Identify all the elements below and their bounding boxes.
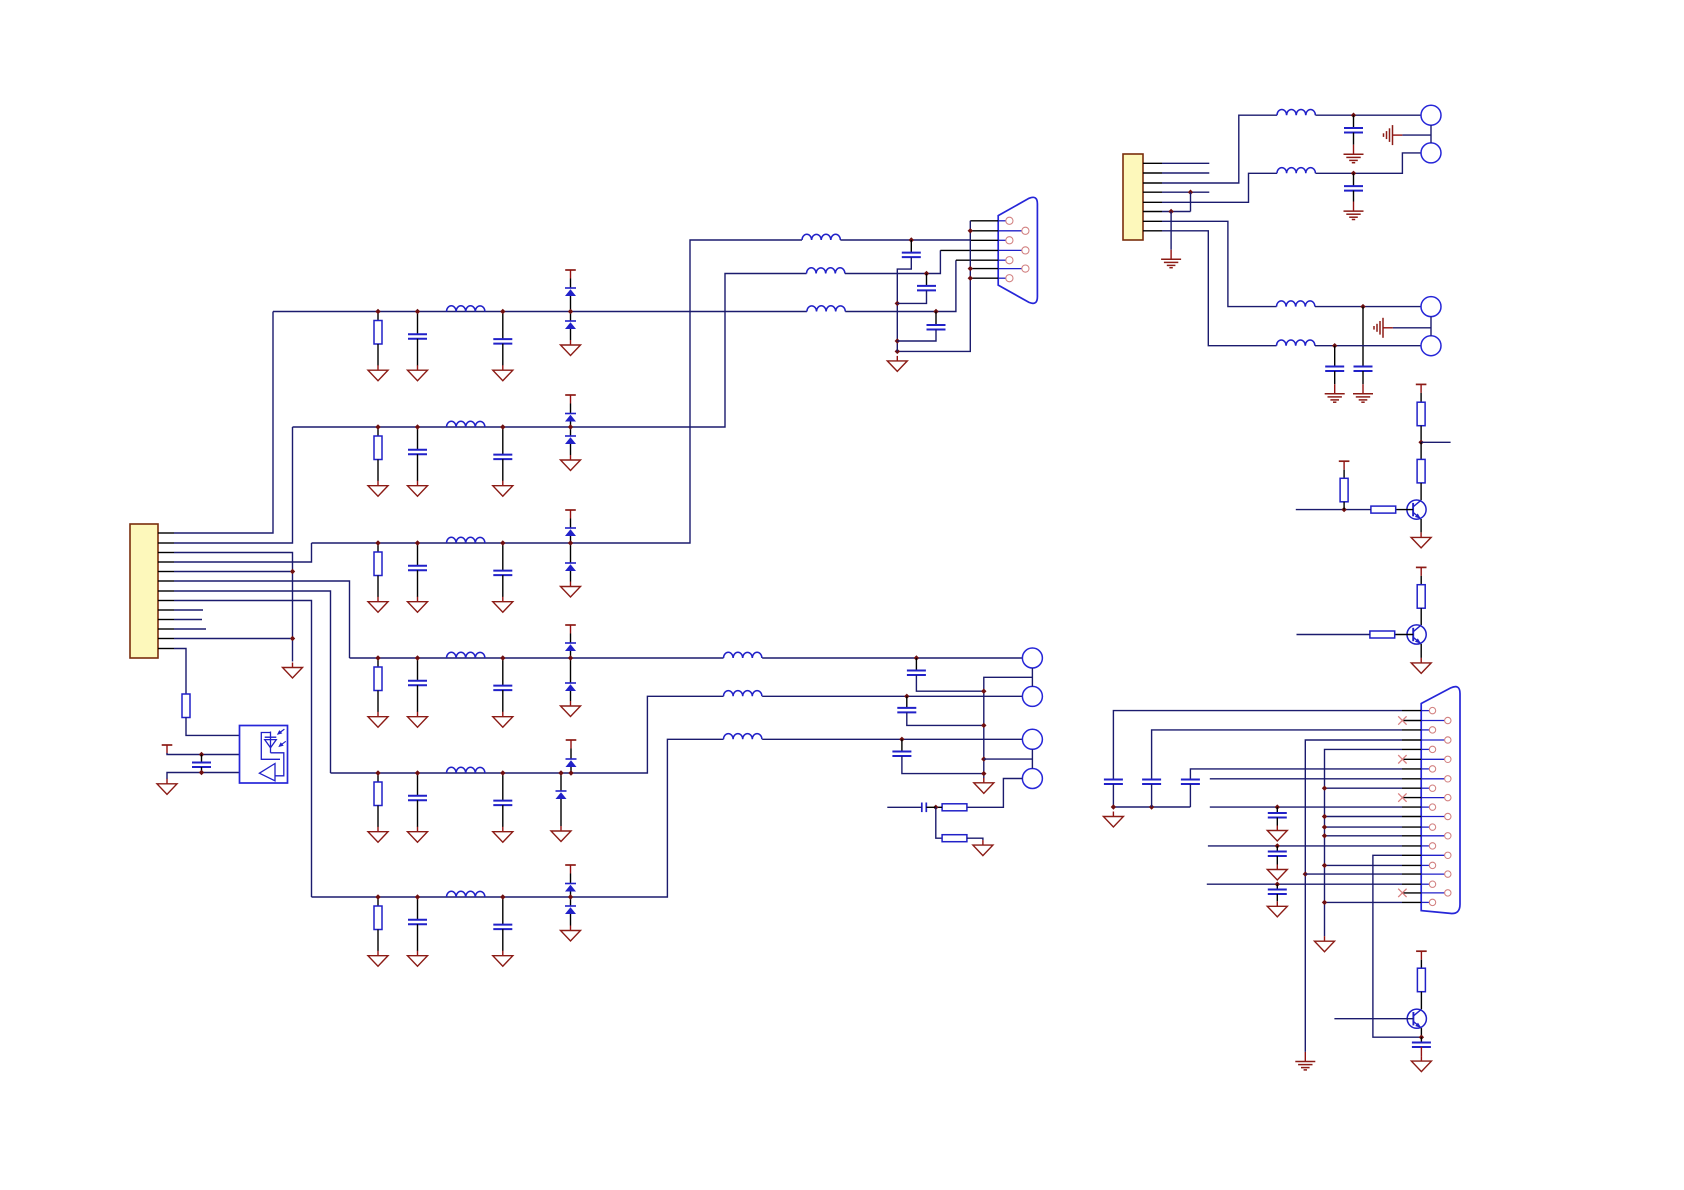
lead row6 lower ESD diode bbox=[570, 897, 572, 906]
wire J1 pin8 to row6 bbox=[174, 601, 312, 898]
J2 pin4 wire bbox=[940, 249, 998, 251]
lead C16 top bbox=[935, 312, 937, 326]
wire VCC to IR receiver pin2 bbox=[167, 753, 240, 755]
lead row2 cap2 bbox=[502, 427, 504, 455]
lead C23 bbox=[1362, 307, 1364, 367]
resistor R21 (Q2 base series) bbox=[1370, 631, 1395, 638]
lead C14 top bbox=[910, 240, 912, 253]
junction J2 pin2/bus bbox=[968, 228, 973, 233]
J7 pin 6 stub bbox=[1143, 211, 1162, 213]
wire J2 ground bus bbox=[897, 221, 970, 352]
ground (row6 cap1) bbox=[408, 951, 428, 967]
junction bus A/pin R9 bbox=[1303, 871, 1308, 876]
J12 pin stub bbox=[1402, 748, 1421, 750]
wire Q3 base net bbox=[1334, 1018, 1413, 1020]
capacitor Crow5a (row5 first shunt cap) bbox=[408, 796, 427, 801]
ground (row5 resistor) bbox=[368, 827, 388, 843]
wire J1 pin7 to row5 bbox=[174, 591, 331, 773]
junction bus B/pin L9 bbox=[1322, 863, 1327, 868]
junction row2/cap2 bbox=[500, 424, 505, 429]
lead row4 cap2 bbox=[502, 658, 504, 686]
wire row3 after inductor L9 to DB9 pin3 bbox=[840, 239, 970, 241]
J12 pin L8 bbox=[1429, 843, 1435, 849]
J12 pin stub bbox=[1402, 710, 1421, 712]
J12 pin L5 lead bbox=[1421, 787, 1429, 789]
chassis ground (J10/J11) bbox=[1374, 318, 1393, 338]
lead C30 top bbox=[1276, 884, 1278, 889]
J2 pin 7 bbox=[1006, 275, 1013, 282]
lead row1 cap2 to ground bbox=[502, 344, 504, 366]
lead row6 upper ESD diode bbox=[570, 874, 572, 884]
J12 pin R8 bbox=[1445, 852, 1451, 858]
capacitor Crow4a (row4 first shunt cap) bbox=[408, 681, 427, 686]
transistor Q1 bbox=[1407, 500, 1426, 519]
junction C18 return bbox=[981, 723, 986, 728]
wire IR receiver pin3 to ground bbox=[167, 773, 240, 780]
J12 pin L3 bbox=[1429, 746, 1435, 752]
no-connect X (J12 R1) bbox=[1398, 716, 1406, 724]
resistor R17 (T1 collector) bbox=[1417, 459, 1425, 483]
wire J12 L8 stub bbox=[1208, 845, 1402, 847]
junction row6/diodes bbox=[568, 894, 573, 899]
capacitor C29 bbox=[1268, 852, 1287, 857]
capacitor C21 bbox=[1344, 128, 1363, 133]
junction row4/C17 bbox=[914, 655, 919, 660]
jack J10 bbox=[1421, 297, 1441, 317]
diode D2b (row2 ESD to ground) bbox=[565, 436, 576, 444]
lead row6 cap1 bbox=[417, 897, 419, 920]
lead row5 upper ESD diode bbox=[570, 749, 572, 760]
wire J5 shell tap bbox=[984, 758, 1033, 760]
lead row3 lower ESD diode bbox=[570, 543, 572, 563]
diode D5b (row5 ESD to ground) bbox=[556, 791, 567, 799]
J12 pin L7 bbox=[1429, 824, 1435, 830]
junction C17 return bbox=[981, 689, 986, 694]
wire J1 pin2 to row2 bbox=[174, 427, 293, 543]
wire J1 pin4 to row3 bbox=[174, 543, 312, 562]
transistor Q3 bbox=[1407, 1009, 1426, 1028]
lead row2 resistor to ground bbox=[377, 460, 379, 482]
lead row3 cap1 to ground bbox=[417, 570, 419, 597]
junction row3/cap1 bbox=[415, 540, 420, 545]
ground (row2 resistor) bbox=[368, 481, 388, 497]
VCC stub (row6 ESD) bbox=[565, 865, 576, 874]
lead R17 top bbox=[1420, 442, 1422, 459]
junction C19 return bbox=[981, 771, 986, 776]
lead R20 to Q2 bbox=[1420, 608, 1422, 625]
lead row5 cap1 bbox=[417, 773, 419, 796]
capacitor Crow1b (row1 second shunt cap) bbox=[493, 339, 512, 344]
lead row5 cap2 to ground bbox=[502, 805, 504, 827]
ground (IR receiver) bbox=[157, 779, 177, 795]
wire L15 to jack J10 bbox=[1315, 306, 1421, 308]
lead row6 cap2 to ground bbox=[502, 929, 504, 951]
lead C28 top bbox=[1276, 807, 1278, 813]
VCC stub (R18) bbox=[1339, 461, 1350, 470]
lead row2 lower ESD diode bbox=[570, 427, 572, 436]
capacitor Crow1a (row1 first shunt cap) bbox=[408, 334, 427, 339]
capacitor C17 (row4 line) bbox=[907, 671, 926, 676]
wire C19 to return bus bbox=[902, 756, 984, 774]
J12 pin L6 bbox=[1429, 804, 1435, 810]
VCC stub (IR receiver) bbox=[162, 745, 173, 754]
junction C15/rail bbox=[895, 301, 900, 306]
J2 pin 2 lead bbox=[998, 230, 1022, 232]
U1 internal photodiode bbox=[265, 732, 277, 753]
junction row3/diodes bbox=[568, 540, 573, 545]
inductor L4 (row4 series) bbox=[447, 652, 485, 658]
J12 pin R2 bbox=[1445, 737, 1451, 743]
ground (row4 ESD) bbox=[561, 701, 581, 717]
lead row3 upper diode to wire bbox=[570, 536, 572, 543]
resistor R1 (row1 shunt) bbox=[374, 321, 382, 345]
J12 pin R3 lead bbox=[1421, 758, 1444, 760]
lead C13 top bbox=[201, 755, 203, 763]
lead C31 bottom bbox=[1420, 1047, 1422, 1056]
lead row4 cap1 bbox=[417, 658, 419, 681]
lead Q2 emitter bbox=[1420, 644, 1422, 658]
wire J1 pin5 bbox=[174, 571, 290, 573]
J2 pin 3 lead bbox=[998, 239, 1006, 241]
J12 pin stub bbox=[1402, 768, 1421, 770]
lead C23 bottom bbox=[1362, 371, 1364, 384]
J2 pin 5 bbox=[1006, 257, 1013, 264]
ground (row3 cap2) bbox=[493, 597, 513, 613]
junction C16/rail bbox=[895, 338, 900, 343]
lead C18 top bbox=[906, 696, 908, 708]
VCC stub (R20) bbox=[1416, 567, 1427, 576]
inductor L6 (row6 series) bbox=[447, 891, 485, 897]
J1 pin 6 stub bbox=[158, 580, 174, 582]
J1 pin 1 stub bbox=[158, 532, 174, 534]
ground (row6 cap2) bbox=[493, 951, 513, 967]
wire J7 pin4 bbox=[1162, 191, 1209, 193]
diode D4b (row4 ESD to ground) bbox=[565, 683, 576, 691]
lead row1 resistor bbox=[377, 312, 379, 321]
no-connect X (J12 R10) bbox=[1398, 889, 1406, 897]
wire J7 pin8 to L16 bbox=[1162, 231, 1277, 346]
wire row5 after inductor L11 to jack J4 bbox=[762, 695, 1022, 697]
wire J1 pin12 bbox=[174, 638, 290, 640]
lead row5 cap2 bbox=[502, 773, 504, 801]
J12 pin stub bbox=[1402, 854, 1421, 856]
J12 pin R4 lead bbox=[1421, 778, 1444, 780]
capacitor C28 bbox=[1268, 813, 1287, 818]
J12 pin stub bbox=[1402, 873, 1421, 875]
lead row4 upper ESD diode bbox=[570, 634, 572, 644]
ground (Q1 emitter) bbox=[1411, 532, 1431, 548]
lead row6 upper diode to wire bbox=[570, 892, 572, 898]
J2 pin 7 lead bbox=[998, 277, 1006, 279]
wire row2 horizontal bbox=[293, 274, 807, 428]
wire J7 pin6 to earth bbox=[1170, 212, 1172, 250]
diode D1a (row1 ESD to VCC) bbox=[565, 288, 576, 296]
J12 pin L2 bbox=[1429, 727, 1435, 733]
J12 pin R5 lead bbox=[1421, 797, 1444, 799]
wire J1 pin6 to row4 bbox=[174, 581, 350, 658]
J2 pin 1 bbox=[1006, 217, 1013, 224]
jack J3 (row4 output) bbox=[1022, 648, 1042, 668]
junction J7 pin6/earth bbox=[1168, 209, 1173, 214]
capacitor C20 (series) bbox=[922, 803, 927, 813]
lead C22 top bbox=[1353, 173, 1355, 186]
J12 pin R5 bbox=[1445, 794, 1451, 800]
ground (row5 ESD) bbox=[551, 826, 571, 842]
junction J2 pin7/bus bbox=[968, 276, 973, 281]
junction L13/C21 bbox=[1351, 113, 1356, 118]
VCC stub (R22) bbox=[1416, 951, 1427, 960]
junction L15/C23 bbox=[1360, 304, 1365, 309]
J1 pin 8 stub bbox=[158, 600, 174, 602]
J2 pin 1 lead bbox=[998, 220, 1006, 222]
J1 pin 5 stub bbox=[158, 571, 174, 573]
wire J12 L4 to C27 bbox=[1190, 769, 1402, 780]
J12 pin R9 bbox=[1445, 871, 1451, 877]
junction row5/R5 bbox=[375, 770, 380, 775]
J12 pin L1 lead bbox=[1421, 710, 1429, 712]
diode D6a (row6 ESD to VCC) bbox=[565, 884, 576, 892]
wire Q2 base lead bbox=[1395, 634, 1414, 636]
inductor L9 (row3 second stage) bbox=[802, 234, 840, 240]
junction row1/C16 bbox=[933, 309, 938, 314]
inductor L16 bbox=[1277, 340, 1315, 346]
ground (row3 cap1) bbox=[408, 597, 428, 613]
lead C21 bottom bbox=[1353, 133, 1355, 145]
capacitor Crow3a (row3 first shunt cap) bbox=[408, 566, 427, 571]
J2 pin 5 lead bbox=[998, 259, 1006, 261]
lead C24 bbox=[1334, 346, 1336, 367]
wire J12 L6 stub bbox=[1210, 806, 1402, 808]
diode D1b (row1 ESD to ground) bbox=[565, 321, 576, 329]
connector J12 (DB25 bottom right) body bbox=[1421, 687, 1460, 914]
wire J3 shell to J4 shell bbox=[1031, 668, 1033, 686]
capacitor C16 (row1 line) bbox=[927, 325, 946, 330]
inductor L12 (row6 second stage) bbox=[724, 734, 762, 740]
ground (Q2 emitter) bbox=[1411, 658, 1431, 674]
resistor R20 (Q2 collector) bbox=[1417, 585, 1425, 609]
diode D4a (row4 ESD to VCC) bbox=[565, 643, 576, 651]
lead R16 top bbox=[1420, 393, 1422, 402]
J12 pin L5 bbox=[1429, 785, 1435, 791]
ground (row5 cap1) bbox=[408, 827, 428, 843]
resistor R19 (Q1 base series) bbox=[1371, 506, 1396, 513]
capacitor C27 (series) bbox=[1181, 780, 1200, 785]
lead C20 right bbox=[926, 806, 936, 808]
wire J10 shell to J11 shell bbox=[1430, 317, 1432, 336]
wire J8 shell to J9 shell bbox=[1430, 125, 1432, 143]
lead R14 left bbox=[936, 806, 942, 808]
inductor L8 (row2 second stage) bbox=[807, 268, 845, 274]
lead row4 resistor bbox=[377, 658, 379, 667]
junction J2 pin6/bus bbox=[968, 266, 973, 271]
ground (cap node) bbox=[1103, 812, 1123, 828]
junction row4/R4 bbox=[375, 655, 380, 660]
junction row5/cap2 bbox=[500, 770, 505, 775]
J7 pin 2 stub bbox=[1143, 172, 1162, 174]
ground (row1 cap2) bbox=[493, 365, 513, 381]
junction row2/diodes bbox=[568, 424, 573, 429]
diode D6b (row6 ESD to ground) bbox=[565, 906, 576, 914]
J2 pin 3 bbox=[1006, 237, 1013, 244]
J12 pin stub bbox=[1402, 883, 1421, 885]
lead row5 resistor bbox=[377, 773, 379, 782]
lead row1 cap2 bbox=[502, 312, 504, 340]
wire R15 branch bbox=[936, 807, 942, 838]
lead row2 lower diode to ground bbox=[570, 444, 572, 455]
J2 pin 6 bbox=[1022, 265, 1029, 272]
ground (C30) bbox=[1267, 901, 1287, 917]
resistor R14 (series) bbox=[942, 804, 967, 811]
ground (C29) bbox=[1267, 865, 1287, 881]
J12 pin L11 lead bbox=[1421, 901, 1429, 903]
connector J2 (DB9 top) body bbox=[998, 197, 1037, 303]
lead row3 cap2 to ground bbox=[502, 575, 504, 597]
VCC stub (row4 ESD) bbox=[565, 625, 576, 634]
resistor R22 (Q3 collector) bbox=[1417, 968, 1425, 992]
inductor L10 (row4 second stage) bbox=[724, 652, 762, 658]
J1 pin 11 stub bbox=[158, 628, 174, 630]
J2 pin 6 lead bbox=[998, 268, 1022, 270]
wire J1 pin13 to R13 bbox=[174, 649, 186, 695]
jack J6 bbox=[1022, 769, 1042, 789]
J12 pin R6 lead bbox=[1421, 816, 1444, 818]
wire R13 to IR receiver pin1 bbox=[186, 718, 240, 736]
ground (bus B) bbox=[1315, 936, 1335, 952]
junction row1/diodes bbox=[568, 309, 573, 314]
VCC stub (row5 ESD) bbox=[566, 740, 577, 749]
wire J1 pin1 to row1 bbox=[174, 312, 273, 534]
junction J7 pin4/pin6 tie bbox=[1188, 190, 1193, 195]
J12 pin R7 bbox=[1445, 833, 1451, 839]
junction row1/R1 bbox=[375, 309, 380, 314]
wire J12 L2 to C26 bbox=[1152, 730, 1402, 780]
J1 pin 3 stub bbox=[158, 552, 174, 554]
lead C15 top bbox=[926, 274, 928, 286]
J2 pin6 wire bbox=[970, 268, 998, 270]
lead C13 bottom bbox=[201, 767, 203, 773]
wire J12 R8 to Q3 emitter bbox=[1373, 855, 1422, 1037]
J12 pin stub bbox=[1402, 758, 1421, 760]
ground (row3 ESD) bbox=[561, 582, 581, 598]
wire J12 R2 ground bus A bbox=[1305, 740, 1402, 1052]
junction bus B/pin L7 bbox=[1322, 824, 1327, 829]
capacitor C25 (series) bbox=[1104, 780, 1123, 785]
wire J12 L10 stub bbox=[1207, 883, 1402, 885]
wire row3 horizontal bbox=[312, 240, 803, 543]
U1 internal amplifier bbox=[259, 764, 275, 781]
lead row1 lower diode to ground bbox=[570, 329, 572, 340]
resistor R15 (to ground) bbox=[942, 835, 967, 842]
J12 pin L8 lead bbox=[1421, 845, 1429, 847]
junction row3/R3 bbox=[375, 540, 380, 545]
wire J7 pin1 stub bbox=[1162, 162, 1209, 164]
J12 pin stub bbox=[1402, 787, 1421, 789]
J12 pin stub bbox=[1402, 739, 1421, 741]
ground (row2 cap1) bbox=[408, 481, 428, 497]
wire J12 R6 bbox=[1325, 816, 1403, 818]
wire row1 after inductor L7 to DB9 pin5 riser bbox=[845, 260, 956, 311]
J12 pin R6 bbox=[1445, 813, 1451, 819]
J12 pin L9 lead bbox=[1421, 864, 1429, 866]
junction caps/ground bus bbox=[895, 349, 900, 354]
J2 pin7 wire bbox=[970, 277, 998, 279]
ground (R15) bbox=[973, 840, 993, 856]
connector J7 (top right yellow header) bbox=[1123, 154, 1143, 240]
wire J3/J4 shell tap to return bus bbox=[984, 677, 1033, 778]
lead row6 resistor bbox=[377, 897, 379, 906]
J12 pin stub bbox=[1402, 729, 1421, 731]
J12 pin L10 bbox=[1429, 881, 1435, 887]
earth ground (C22) bbox=[1344, 202, 1364, 220]
junction C26/node bbox=[1149, 804, 1154, 809]
resistor R4 (row4 shunt) bbox=[374, 667, 382, 691]
ground (row1 resistor) bbox=[368, 365, 388, 381]
junction row6/C19 bbox=[899, 737, 904, 742]
lead C21 top bbox=[1353, 115, 1355, 128]
lead row4 cap2 to ground bbox=[502, 690, 504, 712]
wire C18 to return bus bbox=[907, 712, 984, 725]
wire J12 L11 bbox=[1325, 901, 1403, 903]
lead C19 top bbox=[901, 739, 903, 751]
J12 pin stub bbox=[1402, 892, 1421, 894]
transistor Q2 bbox=[1407, 625, 1426, 644]
jack J4 (row5 output) bbox=[1022, 686, 1042, 706]
J12 pin L6 lead bbox=[1421, 806, 1429, 808]
wire row5 horizontal bbox=[331, 696, 724, 773]
junction row1/cap1 bbox=[415, 309, 420, 314]
J12 pin R10 lead bbox=[1421, 892, 1444, 894]
J7 pin 3 stub bbox=[1143, 182, 1162, 184]
lead row1 lower ESD diode bbox=[570, 312, 572, 322]
J12 pin stub bbox=[1402, 797, 1421, 799]
junction row5/upper diode bbox=[568, 770, 573, 775]
earth ground (bus A) bbox=[1295, 1052, 1315, 1070]
junction row5/lower diode bbox=[558, 770, 563, 775]
ground (jack return bus) bbox=[974, 778, 994, 794]
resistor R2 (row2 shunt) bbox=[374, 436, 382, 460]
VCC stub (R16) bbox=[1416, 384, 1427, 393]
ground (row6 resistor) bbox=[368, 951, 388, 967]
capacitor C18 (row5 line) bbox=[897, 708, 916, 713]
capacitor Crow6a (row6 first shunt cap) bbox=[408, 920, 427, 925]
J12 pin stub bbox=[1402, 720, 1421, 722]
J1 pin 4 stub bbox=[158, 561, 174, 563]
wire C15 to rail bbox=[897, 290, 926, 303]
inductor L15 bbox=[1277, 301, 1315, 307]
wire J12 L3 ground bus B bbox=[1325, 749, 1403, 936]
lead R17 to T1 collector bbox=[1420, 483, 1422, 500]
capacitor Crow2a (row2 first shunt cap) bbox=[408, 450, 427, 455]
lead C22 bottom bbox=[1353, 191, 1355, 202]
lead C17 top bbox=[915, 658, 917, 671]
lead row4 resistor to ground bbox=[377, 691, 379, 713]
lead C29 bottom bbox=[1276, 856, 1278, 865]
lead row3 upper ESD diode bbox=[570, 519, 572, 529]
wire J6 to RC network bbox=[967, 779, 1022, 808]
wire chassis to J10/J11 shell bbox=[1393, 327, 1431, 329]
wire L14 to jack J9 bbox=[1316, 153, 1423, 173]
wire J5 shell to J6 shell bbox=[1031, 749, 1033, 768]
ground (row5 cap2) bbox=[493, 827, 513, 843]
J12 pin R9 lead bbox=[1421, 873, 1444, 875]
J7 pin 4 stub bbox=[1143, 191, 1162, 193]
inductor L5 (row5 series) bbox=[447, 767, 485, 773]
lead row1 upper diode to wire bbox=[570, 296, 572, 312]
J12 pin R1 bbox=[1445, 717, 1451, 723]
junction L14/C22 bbox=[1351, 171, 1356, 176]
wire J7 pin2 stub bbox=[1162, 172, 1209, 174]
junction IR pin3/C13 bbox=[199, 770, 204, 775]
